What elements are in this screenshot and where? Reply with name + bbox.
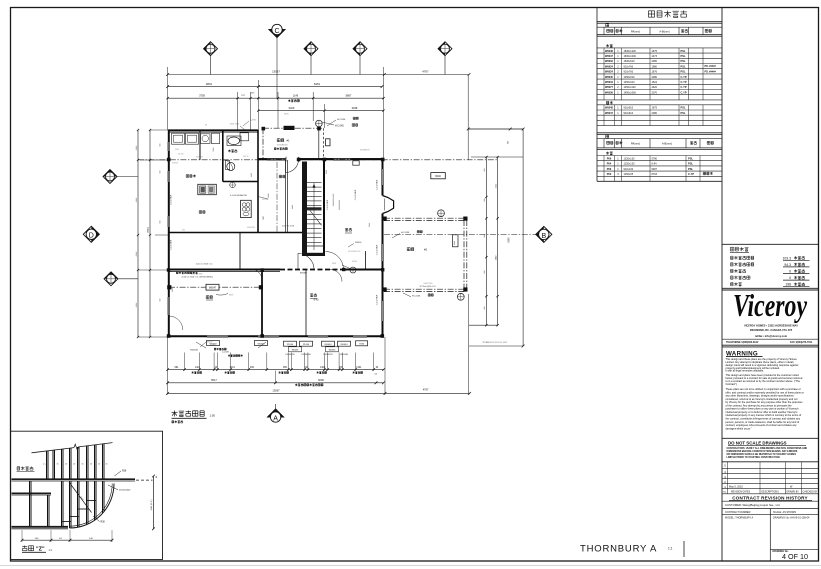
svg-text:CHECKED BY: CHECKED BY (803, 492, 818, 494)
svg-text:R38: R38 (122, 471, 127, 473)
svg-text:PSL: PSL (688, 162, 693, 166)
svg-text:5780: 5780 (652, 157, 658, 160)
svg-text:PSL: PSL (688, 156, 693, 160)
svg-text:Viceroy: Viceroy (733, 287, 808, 323)
svg-text:4 OF 10: 4 OF 10 (782, 552, 808, 561)
svg-text:R4(mm): R4(mm) (631, 30, 641, 34)
svg-text:####: #### (172, 288, 174, 292)
svg-text:TELEPHONE 1(800)663-8122: TELEPHONE 1(800)663-8122 (726, 341, 759, 344)
svg-text:it with all legal remedies ava: it with all legal remedies available. (726, 369, 765, 373)
svg-text:CONTRACTORS: VERIFY ALL DIMEN: CONTRACTORS: VERIFY ALL DIMENSIONS AND S… (727, 447, 808, 450)
svg-text:#######: ####### (196, 157, 203, 159)
svg-text:0: 0 (789, 270, 791, 274)
svg-text:CONTRACT NUMBER: CONTRACT NUMBER (725, 511, 751, 514)
svg-text:###: ### (160, 144, 162, 147)
svg-text:H.C.6X6: H.C.6X6 (401, 232, 410, 234)
svg-text:W6024: W6024 (605, 71, 614, 74)
svg-text:A: A (273, 415, 278, 422)
svg-text:910x760: 910x760 (624, 71, 634, 74)
svg-text:OR OMISSIONS SHOULD BE REPORTE: OR OMISSIONS SHOULD BE REPORTED TO VICER… (727, 454, 797, 456)
svg-text:W6077: W6077 (605, 86, 614, 89)
svg-text:2x10 FJ @16: 2x10 FJ @16 (282, 226, 295, 228)
svg-text:H.C.6X6: H.C.6X6 (337, 119, 346, 121)
svg-text:LIMITED PRIOR TO STARTING CONS: LIMITED PRIOR TO STARTING CONSTRUCTION. (727, 456, 781, 459)
svg-text:C: C (274, 28, 279, 35)
svg-text:P1050: P1050 (303, 344, 310, 346)
svg-text:1450x610: 1450x610 (624, 76, 636, 79)
svg-text:PSL: PSL (681, 54, 686, 58)
svg-text:###: ### (182, 230, 185, 232)
svg-text:W6048: W6048 (605, 50, 614, 53)
svg-text:7093: 7093 (359, 344, 365, 346)
svg-text:16: 16 (82, 464, 84, 466)
svg-text:1450x65: 1450x65 (624, 173, 634, 176)
svg-text:PSL: PSL (688, 167, 693, 171)
svg-text:1830x1220: 1830x1220 (624, 50, 637, 53)
svg-text:910x760: 910x760 (624, 65, 634, 68)
svg-text:A-B(mm): A-B(mm) (662, 142, 673, 146)
svg-text:1450x1060: 1450x1060 (624, 91, 637, 94)
svg-text:910x130: 910x130 (624, 168, 634, 171)
svg-text:3-2x10 BM ABOVE: 3-2x10 BM ABOVE (230, 194, 248, 197)
svg-text:2x10 CJ @16 O.C. W/ R40 INSUL: 2x10 CJ @16 O.C. W/ R40 INSUL (182, 277, 215, 279)
svg-text:P.T.6X6 #### #### ## ####: P.T.6X6 #### #### ## #### (483, 342, 508, 344)
svg-text:1980: 1980 (652, 65, 658, 68)
svg-text:A-B(mm): A-B(mm) (659, 30, 670, 34)
svg-text:4767: 4767 (423, 388, 429, 392)
svg-text:2070: 2070 (652, 91, 658, 94)
svg-text:## ####: ## #### (262, 199, 269, 201)
svg-text:1:50: 1:50 (210, 414, 216, 418)
svg-text:C.YP: C.YP (681, 75, 687, 79)
svg-text:909: 909 (283, 367, 288, 369)
svg-text:6517: 6517 (211, 378, 217, 382)
svg-text:VICEROY HOMES • 13311 HORSESHO: VICEROY HOMES • 13311 HORSESHOE WAY (744, 323, 798, 327)
svg-text:P.T.2x6 @16 O.C.: P.T.2x6 @16 O.C. (420, 286, 437, 288)
svg-text:D: D (89, 233, 94, 240)
svg-text:C.YP: C.YP (681, 90, 687, 94)
svg-text:P1050: P1050 (287, 344, 294, 346)
svg-text:W6034: W6034 (605, 81, 614, 84)
svg-text:PD. #####: PD. ##### (705, 65, 717, 68)
svg-text:DIMENSIONS BEFORE CONSTRUCTIO: DIMENSIONS BEFORE CONSTRUCTION BEGINS. A… (727, 450, 798, 453)
svg-text:W6033: W6033 (329, 350, 336, 352)
svg-text:"Z": "Z" (36, 547, 45, 553)
svg-text:C.YP: C.YP (688, 172, 694, 176)
svg-text:PSL: PSL (681, 64, 686, 68)
svg-text:2-2x10 HDR: 2-2x10 HDR (355, 189, 357, 200)
svg-text:P06: P06 (607, 168, 612, 171)
svg-text:W6034: W6034 (325, 344, 333, 346)
svg-text:PSL: PSL (681, 49, 686, 53)
svg-text:W6036: W6036 (605, 91, 614, 94)
svg-text:####: #### (175, 149, 179, 151)
svg-text:L=2438: L=2438 (222, 352, 230, 354)
svg-text:tel/fax • info@viceroy.com: tel/fax • info@viceroy.com (755, 334, 788, 338)
svg-text:1524: 1524 (652, 81, 658, 84)
svg-text:8763: 8763 (652, 173, 658, 176)
svg-text:May 5, 2010: May 5, 2010 (729, 485, 743, 488)
svg-text:THORNBURY A: THORNBURY A (580, 544, 657, 555)
svg-text:2-2x10 HDR: 2-2x10 HDR (171, 239, 173, 250)
svg-text:####: #### (326, 170, 328, 174)
svg-text:4767: 4767 (422, 70, 429, 74)
svg-text:PSL: PSL (681, 106, 686, 110)
svg-text:0: 0 (789, 276, 791, 280)
svg-text:2-2x10 HDR: 2-2x10 HDR (377, 294, 379, 305)
svg-text:### ##: ### ## (243, 156, 249, 158)
svg-text:SCALE: AS SHOWN: SCALE: AS SHOWN (773, 511, 796, 514)
svg-text:4801: 4801 (206, 82, 213, 86)
svg-text:1401: 1401 (195, 367, 201, 369)
svg-text:2-2x10 HDR: 2-2x10 HDR (171, 194, 173, 205)
svg-text:W6048A: W6048A (190, 349, 198, 352)
svg-text:4420: 4420 (652, 86, 658, 89)
svg-text:16: 16 (65, 464, 67, 466)
svg-text:Contract"): Contract") (726, 382, 738, 386)
svg-text:P04: P04 (607, 163, 612, 166)
svg-text:5867: 5867 (346, 93, 352, 97)
svg-text:16: 16 (90, 464, 92, 466)
svg-text:C.YP: C.YP (681, 80, 687, 84)
svg-text:###: ### (160, 299, 162, 302)
svg-text:DRAWING No: AH-09-01-158-04: DRAWING No: AH-09-01-158-04 (773, 517, 810, 520)
svg-text:######: ###### (172, 163, 178, 165)
svg-text:2-2x10 HDR: 2-2x10 HDR (377, 244, 379, 255)
svg-text:REVISION DATES: REVISION DATES (731, 491, 751, 494)
svg-text:13067: 13067 (272, 70, 280, 74)
svg-text:2080: 2080 (652, 60, 658, 63)
svg-text:606: 606 (508, 141, 510, 144)
svg-text:8-94: 8-94 (652, 163, 658, 166)
svg-text:PSL: PSL (681, 59, 686, 63)
svg-text:#2: #2 (424, 248, 428, 252)
svg-text:2x10 CJ @16 O.C.: 2x10 CJ @16 O.C. (196, 264, 213, 266)
svg-text:No.: No. (723, 492, 727, 494)
svg-text:1220x130: 1220x130 (624, 163, 636, 166)
svg-text:16: 16 (98, 464, 100, 466)
svg-text:PSL: PSL (681, 111, 686, 115)
svg-text:##########: ########## (339, 200, 341, 210)
svg-text:######## ####: ######## #### (333, 194, 335, 207)
svg-text:R38: R38 (101, 522, 106, 524)
svg-text:1676: 1676 (652, 71, 658, 74)
svg-text:W6024: W6024 (605, 65, 614, 68)
svg-text:8686: 8686 (509, 237, 511, 243)
svg-text:P1050P05: P1050P05 (323, 354, 333, 356)
svg-text:1675: 1675 (652, 107, 658, 110)
svg-text:1067: 1067 (263, 216, 265, 220)
svg-text:16: 16 (73, 464, 75, 466)
svg-text:B: B (541, 233, 546, 240)
svg-text:1473: 1473 (652, 55, 658, 58)
svg-text:H.C.6X6: H.C.6X6 (412, 296, 421, 298)
svg-text:W6034: W6034 (341, 344, 349, 346)
svg-text:1830x1000: 1830x1000 (624, 55, 637, 58)
svg-text:W6045: W6045 (605, 76, 614, 79)
svg-text:FAX 1(604)273-7611: FAX 1(604)273-7611 (790, 341, 813, 344)
svg-text:CONTRACT REVISION HISTORY: CONTRACT REVISION HISTORY (732, 495, 807, 500)
svg-text:####: #### (213, 148, 215, 152)
svg-text:####/####: ####/#### (360, 150, 370, 152)
svg-text:PSL: PSL (681, 70, 686, 74)
svg-text:R4(mm): R4(mm) (631, 142, 641, 146)
svg-text:####: #### (369, 223, 371, 227)
svg-text:8534: 8534 (148, 227, 150, 233)
svg-text:5487: 5487 (652, 168, 658, 171)
svg-text:######: ###### (206, 342, 213, 344)
svg-text:910x910: 910x910 (624, 107, 634, 110)
svg-text:###: ### (160, 171, 162, 174)
svg-text:1149: 1149 (293, 94, 299, 97)
svg-text:1:1: 1:1 (668, 547, 673, 551)
svg-text:#### ####: #### #### (230, 124, 240, 126)
svg-text:W6033: W6033 (292, 350, 299, 352)
svg-text:910x610: 910x610 (624, 112, 634, 115)
svg-text:DESCRIPTIONS: DESCRIPTIONS (762, 492, 780, 494)
svg-text:2-2x10 HDR: 2-2x10 HDR (377, 179, 379, 190)
svg-text:2080: 2080 (652, 112, 658, 115)
svg-text:## ####### ##: ## ####### ## (348, 251, 360, 253)
svg-text:W6034B: W6034B (340, 354, 348, 356)
svg-text:###: ### (160, 221, 162, 224)
svg-text:1450x910: 1450x910 (624, 81, 636, 84)
svg-text:2-2x10 HDR: 2-2x10 HDR (327, 199, 329, 210)
svg-text:DO NOT SCALE DRAWINGS: DO NOT SCALE DRAWINGS (728, 440, 787, 445)
svg-text:6040: 6040 (435, 175, 441, 178)
svg-text:6096: 6096 (318, 378, 324, 382)
svg-text:1450x1120: 1450x1120 (624, 86, 637, 89)
svg-text:P1050P05: P1050P05 (285, 354, 295, 356)
svg-text:7 ¼: 7 ¼ (43, 463, 47, 466)
svg-text:#1: #1 (287, 139, 291, 143)
svg-text:6461: 6461 (314, 82, 321, 86)
svg-text:3759: 3759 (199, 93, 205, 97)
svg-text:####: #### (251, 173, 253, 177)
svg-text:DRAWN BY: DRAWN BY (787, 491, 800, 494)
svg-text:16: 16 (106, 464, 108, 466)
svg-text:W6036: W6036 (355, 242, 362, 244)
svg-text:103.3: 103.3 (783, 256, 792, 260)
svg-text:W6047: W6047 (209, 288, 217, 290)
svg-text:(FR): (FR) (314, 299, 319, 302)
svg-text:48: 48 (156, 476, 158, 478)
svg-text:1675: 1675 (652, 50, 658, 53)
svg-text:2489 (8'-2"): 2489 (8'-2") (151, 499, 153, 510)
svg-text:W6032: W6032 (605, 60, 614, 63)
svg-text:####X####: ####X#### (277, 145, 288, 147)
svg-text:BM ABV: BM ABV (300, 272, 308, 275)
svg-text:P1050P04: P1050P04 (301, 354, 311, 356)
svg-text:MODEL: THORNBURY A: MODEL: THORNBURY A (725, 517, 754, 520)
svg-text:4-####: 4-#### (250, 120, 257, 122)
svg-text:W6048: W6048 (605, 107, 614, 110)
svg-text:P06: P06 (607, 157, 612, 160)
svg-text:#####: ##### (352, 261, 357, 263)
svg-text:RICHMOND, BC, CANADA V7A 4V5: RICHMOND, BC, CANADA V7A 4V5 (750, 328, 793, 332)
svg-text:C.YP: C.YP (681, 85, 687, 89)
svg-text:1830x910: 1830x910 (624, 60, 636, 63)
svg-text:94.3: 94.3 (784, 263, 791, 267)
svg-text:## ###: ## ### (178, 154, 184, 156)
svg-text:1401: 1401 (320, 367, 326, 369)
svg-text:CUSTOMER: Wang/Beijing projec: CUSTOMER: Wang/Beijing project hse., Ltd (725, 503, 780, 507)
svg-text:50x64x2400: 50x64x2400 (119, 490, 131, 492)
svg-text:1401: 1401 (356, 367, 362, 369)
svg-text:########: ######## (247, 227, 255, 229)
svg-text:W6047: W6047 (605, 55, 614, 58)
svg-text:16: 16 (57, 464, 59, 466)
svg-text:damages which occur.": damages which occur." (726, 426, 752, 430)
svg-text:PD. #####: PD. ##### (705, 70, 717, 73)
svg-text:W6047: W6047 (605, 112, 614, 115)
svg-text:3429: 3429 (289, 106, 295, 110)
svg-text:1220x130: 1220x130 (624, 157, 636, 160)
svg-text:13067: 13067 (272, 389, 280, 393)
svg-text:H.C.6X6: H.C.6X6 (335, 126, 344, 128)
svg-text:2080: 2080 (652, 76, 658, 79)
svg-text:P03: P03 (607, 173, 612, 176)
svg-text:3048: 3048 (352, 106, 358, 110)
svg-text:#### ####: #### #### (424, 283, 434, 285)
